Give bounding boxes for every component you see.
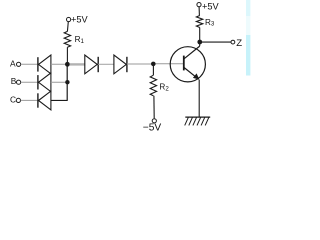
terminal +5V left: [67, 17, 71, 21]
highlight strip right edge: [246, 0, 250, 76]
wire C terminal to D3: [21, 99, 38, 101]
junction dot row A: [65, 62, 70, 67]
wire D3 to bus corner: [51, 99, 67, 101]
terminal Z: [231, 40, 235, 44]
wire R1 to junction A: [66, 47, 68, 64]
wire D2 to bus: [51, 81, 67, 83]
wire B terminal to D2: [21, 81, 38, 83]
junction dot base node: [151, 62, 156, 67]
svg-text:+5V: +5V: [202, 1, 219, 11]
wire R3 to +5V terminal: [198, 7, 200, 16]
wire R2 to -5V terminal: [153, 96, 155, 119]
resistor R2: [150, 75, 156, 96]
wire emitter down: [198, 80, 200, 117]
svg-text:B: B: [11, 76, 17, 86]
wire collector node to R3: [199, 28, 201, 43]
wire junction A to D4 (thick gray): [70, 63, 85, 65]
terminal B: [17, 80, 21, 84]
wire D5 to junction base: [127, 63, 151, 65]
wire D4 to D5: [98, 63, 114, 65]
wire A terminal to D1: [21, 63, 38, 65]
terminal -5V: [152, 119, 156, 123]
transistor Q1: [170, 46, 205, 82]
wire collector up: [199, 42, 201, 46]
diode D1: [38, 55, 51, 74]
wire collector node to Z: [202, 41, 231, 43]
svg-text:A: A: [10, 58, 16, 68]
diode D3: [38, 91, 51, 110]
terminal A: [17, 62, 21, 66]
terminal C: [16, 98, 20, 102]
wire +5V to R1: [66, 22, 69, 32]
ground: [185, 117, 211, 125]
svg-text:+5V: +5V: [71, 14, 88, 24]
svg-text:C: C: [10, 95, 16, 105]
diode D2: [38, 73, 51, 92]
diode D4: [85, 55, 98, 74]
resistor R3: [196, 16, 202, 28]
wire junction to R2: [152, 66, 154, 75]
resistor R1: [64, 31, 70, 47]
junction dot row B: [65, 80, 69, 84]
terminal +5V right: [197, 3, 201, 7]
wire junction to Q1 base: [156, 63, 184, 65]
svg-text:−5V: −5V: [143, 123, 162, 133]
junction dot collector: [197, 40, 202, 45]
svg-text:Z: Z: [236, 38, 242, 49]
wire common anode bus: [66, 64, 68, 101]
wire D1 to bus: [51, 63, 67, 65]
diode D5: [114, 55, 127, 74]
